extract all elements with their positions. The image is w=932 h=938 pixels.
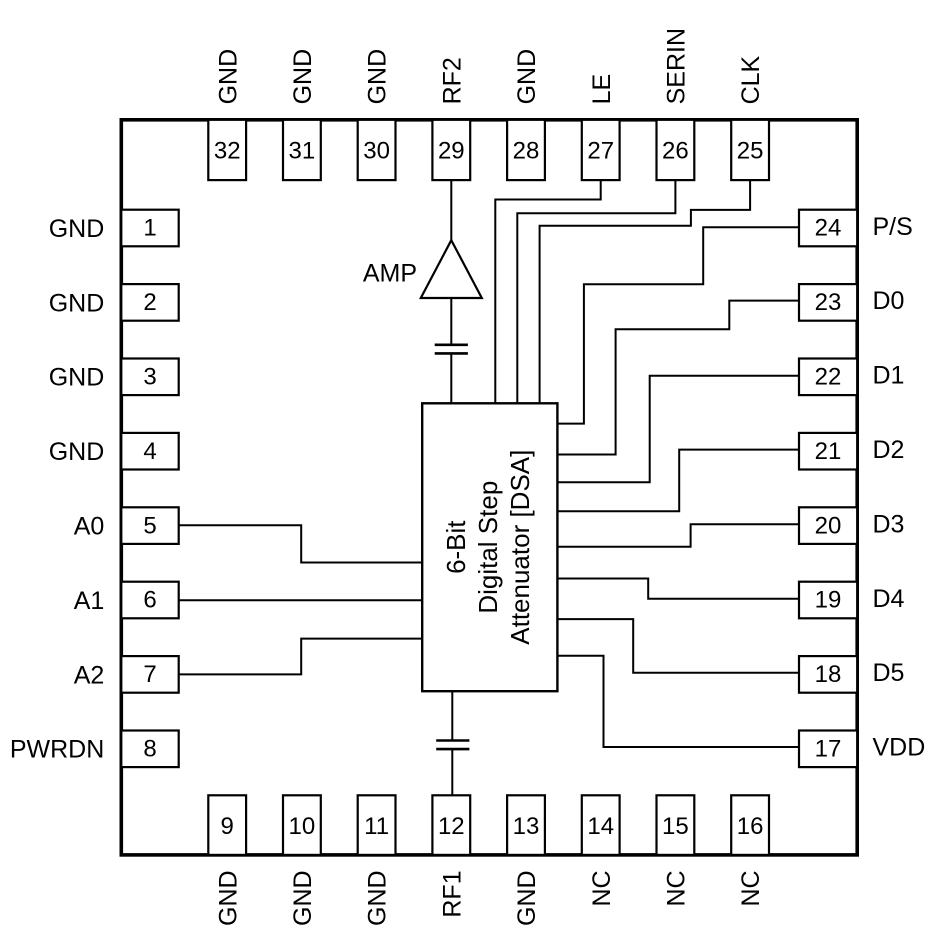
- svg-text:D2: D2: [873, 436, 905, 464]
- wire D0: pin 23 to DSA right side: [557, 301, 798, 455]
- pin 6 net label A1: [74, 587, 105, 615]
- pin 31 box (top row): [283, 120, 321, 180]
- block U1: 6-Bit Digital Step Attenuator [DSA]: [422, 403, 557, 691]
- pin 23 net label D0: [873, 287, 905, 315]
- svg-text:A0: A0: [74, 513, 105, 541]
- wire A0: pin 5 to DSA left side: [179, 525, 423, 562]
- pin 9 box (bottom row): [208, 795, 246, 855]
- wire A2: pin 7 to DSA left side: [179, 639, 423, 675]
- pin 7 net label A2: [74, 661, 105, 689]
- pin 25 box (top row): [731, 120, 769, 180]
- pin 16 box (bottom row): [731, 795, 769, 855]
- pin 14 box (bottom row): [582, 795, 620, 855]
- svg-text:GND: GND: [289, 49, 317, 105]
- svg-text:NC: NC: [663, 870, 691, 906]
- pin 29 net label RF2: [438, 57, 466, 104]
- label AMP: [363, 259, 417, 287]
- label U1 line 3: Attenuator [DSA]: [505, 450, 535, 645]
- label U1 line 2: Digital Step: [473, 481, 503, 614]
- svg-text:3: 3: [143, 364, 156, 391]
- svg-text:GND: GND: [513, 870, 541, 926]
- svg-text:29: 29: [438, 138, 465, 165]
- wire amplifier output to capacitor C1: [450, 298, 452, 344]
- svg-text:PWRDN: PWRDN: [10, 736, 104, 764]
- pin 27 box (top row): [582, 120, 620, 180]
- svg-text:D0: D0: [873, 287, 905, 315]
- pin 31 net label GND: [289, 49, 317, 105]
- pin 16 net label NC: [737, 870, 765, 906]
- svg-text:NC: NC: [737, 870, 765, 906]
- svg-text:D1: D1: [873, 362, 905, 390]
- pin 19 net label D4: [873, 585, 905, 613]
- svg-text:RF2: RF2: [438, 57, 466, 104]
- svg-text:10: 10: [289, 813, 316, 840]
- svg-text:25: 25: [737, 138, 764, 165]
- pin 17 box (right column): [799, 731, 857, 768]
- svg-text:GND: GND: [49, 289, 105, 317]
- pin 17 net label VDD: [873, 734, 926, 762]
- svg-text:RF1: RF1: [438, 870, 466, 917]
- label U1 line 1: 6-Bit: [441, 520, 471, 574]
- pin 24 net label P/S: [873, 213, 913, 241]
- svg-text:GND: GND: [364, 870, 392, 926]
- pin 32 box (top row): [208, 120, 246, 180]
- svg-text:20: 20: [815, 512, 842, 539]
- capacitor C1 (RF2 dc-block, plates): [435, 345, 468, 354]
- wire D4: DSA right side to pin 19: [557, 579, 798, 599]
- svg-text:GND: GND: [513, 49, 541, 105]
- svg-text:GND: GND: [49, 438, 105, 466]
- svg-text:6: 6: [143, 587, 156, 614]
- wire P/S: pin 24 to DSA right side: [557, 227, 798, 423]
- svg-text:GND: GND: [364, 49, 392, 105]
- pin 15 net label NC: [663, 870, 691, 906]
- pin 4 box (left column): [121, 433, 178, 470]
- chip outline (32-pin package body): [121, 120, 857, 855]
- svg-text:28: 28: [513, 138, 540, 165]
- wire D5: DSA right side to pin 18: [557, 619, 798, 673]
- pin 30 box (top row): [358, 120, 396, 180]
- pin 21 net label D2: [873, 436, 905, 464]
- svg-text:NC: NC: [588, 870, 616, 906]
- op-amp U2 (AMP, RF amplifier triangle): [421, 240, 482, 298]
- svg-text:SERIN: SERIN: [663, 28, 691, 104]
- svg-text:9: 9: [221, 813, 234, 840]
- svg-text:GND: GND: [289, 870, 317, 926]
- wire RF2: pin 29 to amplifier input: [450, 180, 452, 241]
- pin 2 box (left column): [121, 284, 178, 321]
- pin 5 box (left column): [121, 507, 178, 544]
- pin 8 box (left column): [121, 731, 178, 768]
- pin 24 box (right column): [799, 210, 857, 247]
- pin 1 box (left column): [121, 210, 178, 247]
- wire D3: pin 20 to DSA right side: [557, 524, 798, 547]
- pin 11 box (bottom row): [358, 795, 396, 855]
- pin 19 box (right column): [799, 582, 857, 619]
- svg-text:7: 7: [143, 661, 156, 688]
- svg-text:15: 15: [662, 813, 689, 840]
- svg-text:A1: A1: [74, 587, 105, 615]
- svg-text:21: 21: [815, 438, 842, 465]
- pin 10 box (bottom row): [283, 795, 321, 855]
- pin 13 net label GND: [513, 870, 541, 926]
- pin 20 net label D3: [873, 510, 905, 538]
- pin 23 box (right column): [799, 284, 857, 321]
- pin 7 box (left column): [121, 656, 178, 693]
- pin 20 box (right column): [799, 507, 857, 544]
- svg-text:Attenuator [DSA]: Attenuator [DSA]: [505, 450, 535, 645]
- svg-text:GND: GND: [49, 364, 105, 392]
- svg-text:11: 11: [364, 813, 389, 840]
- svg-text:23: 23: [815, 289, 842, 316]
- pin 22 net label D1: [873, 362, 905, 390]
- svg-text:27: 27: [587, 138, 614, 165]
- wire DSA bottom to capacitor C2 (RF1 path): [451, 691, 453, 740]
- wire D2: pin 21 to DSA right side: [557, 450, 798, 512]
- pin 1 net label GND: [49, 215, 105, 243]
- pin 9 net label GND: [214, 870, 242, 926]
- pin 11 net label GND: [364, 870, 392, 926]
- svg-text:GND: GND: [49, 215, 105, 243]
- svg-text:5: 5: [143, 512, 156, 539]
- pin 28 box (top row): [507, 120, 545, 180]
- pin 5 net label A0: [74, 513, 105, 541]
- svg-text:32: 32: [214, 138, 241, 165]
- svg-text:LE: LE: [588, 74, 616, 105]
- pin 29 box (top row): [432, 120, 470, 180]
- capacitor C2 (RF1 dc-block, plates): [436, 741, 469, 750]
- svg-text:VDD: VDD: [873, 734, 926, 762]
- pin 6 box (left column): [121, 582, 178, 619]
- pin 3 box (left column): [121, 359, 178, 396]
- wire A1: pin 6 to DSA left side: [179, 599, 423, 601]
- wire LE: pin 27 to DSA top: [495, 180, 600, 403]
- svg-text:18: 18: [815, 661, 842, 688]
- pin 28 net label GND: [513, 49, 541, 105]
- svg-text:P/S: P/S: [873, 213, 913, 241]
- pin 12 net label RF1: [438, 870, 466, 917]
- svg-text:13: 13: [513, 813, 540, 840]
- svg-text:D5: D5: [873, 659, 905, 687]
- pin 32 net label GND: [214, 49, 242, 105]
- pin 26 box (top row): [657, 120, 695, 180]
- pin 25 net label CLK: [737, 55, 765, 104]
- svg-text:17: 17: [815, 736, 842, 763]
- wire CLK: pin 25 to DSA top: [540, 180, 751, 403]
- svg-text:6-Bit: 6-Bit: [441, 520, 471, 574]
- svg-text:8: 8: [143, 736, 156, 763]
- svg-text:2: 2: [143, 289, 156, 316]
- svg-text:30: 30: [363, 138, 390, 165]
- svg-text:1: 1: [143, 215, 156, 242]
- pin 18 net label D5: [873, 659, 905, 687]
- svg-text:D4: D4: [873, 585, 905, 613]
- pin 4 net label GND: [49, 438, 105, 466]
- wire SERIN: pin 26 to DSA top: [517, 180, 675, 403]
- pin 22 box (right column): [799, 359, 857, 396]
- svg-text:14: 14: [587, 813, 614, 840]
- pin 18 box (right column): [799, 656, 857, 693]
- pin 27 net label LE: [588, 74, 616, 105]
- pin 30 net label GND: [364, 49, 392, 105]
- svg-text:A2: A2: [74, 661, 105, 689]
- svg-text:26: 26: [662, 138, 689, 165]
- svg-text:19: 19: [815, 587, 842, 614]
- svg-text:24: 24: [815, 215, 842, 242]
- svg-text:CLK: CLK: [737, 55, 765, 104]
- svg-text:D3: D3: [873, 510, 905, 538]
- svg-text:22: 22: [815, 364, 842, 391]
- wire VDD: DSA right side to pin 17: [557, 656, 798, 747]
- svg-text:GND: GND: [214, 870, 242, 926]
- svg-text:31: 31: [289, 138, 316, 165]
- svg-text:4: 4: [143, 438, 156, 465]
- pin 10 net label GND: [289, 870, 317, 926]
- wire capacitor C2 to pin 12: [451, 750, 453, 796]
- pin 21 box (right column): [799, 433, 857, 470]
- pin 13 box (bottom row): [507, 795, 545, 855]
- svg-text:16: 16: [737, 813, 764, 840]
- svg-text:Digital Step: Digital Step: [473, 481, 503, 614]
- svg-text:GND: GND: [214, 49, 242, 105]
- pin 3 net label GND: [49, 364, 105, 392]
- wire D1: pin 22 to DSA right side: [557, 376, 798, 483]
- pin 14 net label NC: [588, 870, 616, 906]
- pin 15 box (bottom row): [657, 795, 695, 855]
- svg-text:12: 12: [438, 813, 465, 840]
- svg-text:AMP: AMP: [363, 259, 417, 287]
- pin 12 box (bottom row): [432, 795, 470, 855]
- pin 2 net label GND: [49, 289, 105, 317]
- wire capacitor C1 to DSA top (RF2 path): [450, 354, 452, 403]
- pin 26 net label SERIN: [663, 28, 691, 104]
- pin 8 net label PWRDN: [10, 736, 104, 764]
